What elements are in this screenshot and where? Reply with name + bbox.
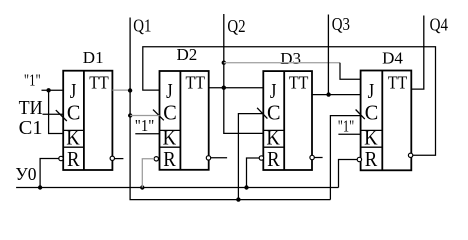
node Q2	[222, 86, 226, 90]
wire Q3 output of D3 to J of D4	[312, 94, 361, 96]
wire "1" to K of D4	[338, 133, 360, 135]
svg-text:D1: D1	[83, 48, 104, 67]
svg-text:J: J	[166, 79, 173, 103]
D1 R input bubble	[59, 156, 63, 160]
wire "1" to J of D1	[42, 89, 64, 91]
svg-text:K: K	[163, 125, 177, 149]
svg-text:K: K	[266, 125, 280, 149]
wire U0 rail up to R of D2 (light)	[142, 159, 154, 188]
node Q1 to C of D2	[128, 113, 132, 117]
wire clock rail riser to C of D4	[330, 116, 360, 200]
D2 section separators	[160, 130, 181, 147]
wire Q2 output of D2 to J of D3	[209, 87, 264, 89]
svg-text:K: K	[364, 125, 378, 149]
svg-text:K: K	[66, 125, 80, 149]
svg-text:C: C	[163, 100, 177, 124]
svg-text:R: R	[163, 147, 176, 171]
wire Q2 upper J of D4 corner	[340, 63, 361, 80]
D3 inverse output bubble	[310, 155, 314, 159]
svg-text:J: J	[270, 79, 277, 103]
flip-flop D4	[361, 71, 412, 171]
D2 R input bubble	[154, 157, 158, 161]
flip-flop D1	[63, 71, 112, 170]
svg-text:D2: D2	[177, 45, 198, 64]
wire U0 rail up to R of D1	[40, 159, 59, 188]
svg-text:"1": "1"	[24, 70, 41, 89]
wire TI to C of D1	[43, 113, 64, 115]
wire Q2 vertical line, bends to K of D3	[224, 14, 263, 133]
D2 inverse output bubble	[206, 156, 210, 160]
D4 dynamic C input slash	[356, 110, 365, 120]
D3 R input bubble	[259, 156, 263, 160]
svg-text:Q3: Q3	[332, 14, 350, 34]
svg-text:С1: С1	[19, 117, 43, 139]
wire Q1 vertical line	[130, 18, 330, 200]
svg-text:TT: TT	[289, 73, 309, 93]
wire Q1 to C of D2 (light)	[130, 115, 159, 117]
svg-text:R: R	[365, 147, 378, 171]
svg-text:C: C	[67, 100, 81, 124]
wire Q4 output of D4	[411, 16, 424, 90]
wire Q3 vertical line	[327, 15, 329, 95]
wire "1" branch down to K of D1	[49, 90, 64, 133]
svg-text:J: J	[368, 79, 375, 103]
svg-text:TT: TT	[89, 73, 109, 93]
node at "1" branch	[46, 88, 50, 92]
wire U0 rail end up to R of D4	[339, 160, 358, 188]
svg-text:ТИ: ТИ	[19, 97, 43, 119]
wire feedback from inverse Q4 to J of D2	[143, 47, 436, 155]
svg-text:Q2: Q2	[227, 16, 245, 36]
svg-text:C: C	[365, 100, 379, 124]
D4 inverse output bubble	[408, 153, 412, 157]
node U0 to D1	[38, 185, 42, 189]
wire Q1 output of D1 (light)	[112, 89, 130, 91]
node Q2 to upper J of D4	[222, 61, 226, 65]
D3 dynamic C input slash	[257, 108, 267, 119]
flip-flop D3	[263, 71, 312, 170]
svg-text:TT: TT	[388, 73, 408, 93]
svg-text:J: J	[70, 79, 77, 103]
wire Q2 to upper J input of D4 (light segment)	[224, 62, 340, 64]
svg-text:Q4: Q4	[430, 15, 449, 35]
svg-text:D3: D3	[280, 49, 301, 68]
svg-text:R: R	[67, 147, 80, 171]
svg-text:Q1: Q1	[133, 15, 151, 35]
svg-text:"1": "1"	[135, 116, 155, 135]
node Q1	[128, 88, 132, 92]
D2 inverse output stub	[211, 157, 227, 159]
D4 section separators	[361, 130, 383, 147]
svg-text:У0: У0	[15, 164, 36, 184]
node U0 to D2	[140, 185, 144, 189]
D1 section separators	[63, 130, 84, 147]
node clock rail to C3 riser	[236, 197, 240, 201]
svg-text:"1": "1"	[338, 116, 355, 135]
wire clock rail riser to C of D3	[238, 114, 263, 200]
D4 R input bubble	[357, 157, 361, 161]
D1 inverse output stub	[115, 158, 124, 160]
flip-flop D2	[160, 71, 209, 170]
D1 inverse output bubble	[110, 156, 114, 160]
svg-text:TT: TT	[186, 73, 206, 93]
D3 inverse output stub	[314, 157, 322, 159]
wire "1" to K of D2	[135, 133, 159, 135]
svg-text:D4: D4	[382, 49, 403, 68]
D2 dynamic C input slash	[153, 110, 164, 121]
D1 dynamic C input slash	[56, 110, 67, 121]
node Q3	[326, 92, 330, 96]
node U0 to D3	[244, 185, 248, 189]
wire U0 rail up to R of D3	[247, 158, 260, 188]
svg-text:C: C	[267, 100, 281, 124]
D3 section separators	[263, 130, 284, 147]
svg-text:R: R	[267, 147, 280, 171]
reset rail from U0	[16, 187, 338, 189]
